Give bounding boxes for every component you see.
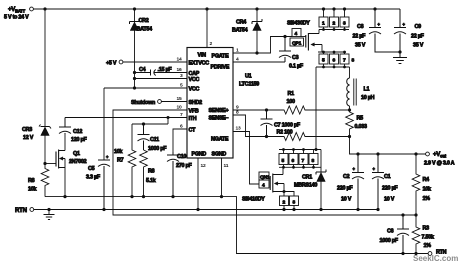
- terminal +Vout: [424, 151, 455, 167]
- node top rail junctions: [43, 7, 376, 10]
- svg-text:R1: R1: [288, 91, 295, 97]
- svg-text:8: 8: [352, 58, 355, 64]
- resistor R7 10k: [114, 124, 136, 197]
- svg-text:16: 16: [177, 67, 182, 73]
- capacitor C6 1000pF: [380, 215, 410, 254]
- svg-text:1000 pF: 1000 pF: [148, 146, 167, 152]
- wire power ground rail2: [34, 209, 378, 211]
- wire VFB pin10 to divider tap: [113, 110, 416, 215]
- wire shutdown to SHD2 pin15: [161, 101, 187, 103]
- transistor QP1 Si9430DY: [287, 9, 355, 68]
- svg-text:Si9430DY: Si9430DY: [287, 21, 310, 27]
- node rail2 junctions: [47, 208, 379, 211]
- svg-text:R2 100: R2 100: [277, 130, 293, 136]
- wire QP1 drain to L1: [349, 67, 351, 78]
- svg-text:3: 3: [293, 200, 296, 206]
- svg-text:CT: CT: [189, 128, 197, 134]
- terminal +VBATT: [4, 6, 33, 21]
- svg-text:5: 5: [282, 158, 285, 164]
- svg-text:7.50k: 7.50k: [422, 235, 434, 241]
- wire top supply rail: [33, 8, 400, 10]
- svg-text:C1: C1: [384, 174, 391, 180]
- svg-text:+VBATT: +VBATT: [8, 6, 26, 14]
- svg-text:SeekIC.com: SeekIC.com: [413, 254, 458, 262]
- svg-text:10: 10: [177, 105, 182, 111]
- svg-text:12 V: 12 V: [23, 135, 34, 141]
- wire R2 sense row pin8: [233, 115, 350, 141]
- svg-text:PDRIVE: PDRIVE: [211, 65, 230, 71]
- svg-text:C2: C2: [343, 174, 350, 180]
- node Vout rail junctions: [356, 152, 417, 155]
- svg-text:SENSE+: SENSE+: [209, 108, 229, 114]
- svg-text:1000 pF: 1000 pF: [380, 238, 399, 244]
- svg-text:R5: R5: [357, 116, 364, 122]
- svg-text:3: 3: [343, 21, 346, 27]
- svg-text:+: +: [353, 167, 356, 172]
- svg-text:C8: C8: [357, 24, 364, 30]
- capacitor C11 1000pF: [138, 124, 168, 152]
- svg-text:C5: C5: [88, 166, 95, 172]
- svg-text:BAT54: BAT54: [137, 27, 153, 33]
- svg-text:13: 13: [236, 126, 241, 132]
- inductor L1 10uH: [347, 78, 375, 106]
- svg-text:12: 12: [201, 163, 206, 169]
- resistor R8 10k: [28, 164, 49, 197]
- svg-text:C6: C6: [387, 229, 394, 235]
- resistor R5 0.033: [346, 106, 367, 137]
- wire signal ground bus rail1: [45, 197, 428, 254]
- node CR2 vertical junctions: [133, 71, 136, 90]
- svg-text:R7: R7: [117, 158, 124, 164]
- terminal +5V: [106, 60, 123, 66]
- svg-text:2: 2: [283, 200, 286, 206]
- op-amp U1 LTC1159 box: [187, 48, 259, 159]
- node C8/C9 ground junction: [398, 50, 401, 53]
- svg-text:R8: R8: [28, 178, 35, 184]
- wire R1 sense row pin9: [233, 106, 350, 114]
- capacitor C7 1000pF: [261, 110, 301, 137]
- svg-text:120 pF: 120 pF: [71, 137, 88, 143]
- svg-text:5: 5: [322, 58, 325, 64]
- svg-text:VCC: VCC: [189, 87, 200, 93]
- capacitor C12 120pF: [59, 118, 88, 144]
- svg-text:+: +: [373, 167, 376, 172]
- svg-text:MBRS140: MBRS140: [294, 183, 317, 189]
- wire ITH row pin7: [65, 117, 187, 119]
- wire +5V to EXTVCC pin14: [123, 61, 187, 63]
- svg-text:U1: U1: [245, 74, 252, 80]
- node ITH tee: [167, 116, 170, 119]
- resistor R4 10k 1%: [412, 154, 431, 215]
- pin numbers U1: [177, 41, 241, 169]
- node CR4/PGATE junction: [255, 51, 258, 54]
- svg-text:8: 8: [312, 158, 315, 164]
- svg-text:+: +: [403, 22, 406, 27]
- wire VCC pin3 row: [135, 78, 188, 80]
- svg-text:PGATE: PGATE: [212, 54, 230, 60]
- svg-text:EXTVCC: EXTVCC: [189, 61, 210, 67]
- svg-text:NGATE: NGATE: [211, 137, 229, 143]
- ground symbol at RTN: [44, 210, 55, 220]
- svg-text:0.033: 0.033: [355, 124, 367, 130]
- terminal RTN: [15, 207, 34, 214]
- node tap rail junctions: [401, 213, 417, 216]
- svg-text:220 µF: 220 µF: [382, 186, 398, 192]
- svg-text:Q1: Q1: [73, 151, 80, 157]
- svg-text:ITH: ITH: [189, 116, 197, 122]
- capacitor C10 270pF: [167, 152, 193, 197]
- svg-text:10 V: 10 V: [341, 197, 352, 203]
- capacitor C2 220uF 10V: [337, 154, 364, 210]
- capacitor C5 3.3uF: [86, 155, 110, 210]
- svg-text:VFB: VFB: [189, 109, 199, 115]
- svg-text:BAT54: BAT54: [232, 28, 248, 34]
- svg-text:RTN: RTN: [15, 207, 27, 214]
- wire CT row pin6: [173, 129, 187, 152]
- svg-text:5.1k: 5.1k: [146, 178, 156, 184]
- wire switch node vertical: [315, 67, 317, 150]
- svg-text:7: 7: [302, 158, 305, 164]
- diode CR1 MBRS140: [294, 150, 326, 210]
- node C11 top: [142, 122, 145, 125]
- svg-text:Shutdown: Shutdown: [131, 100, 155, 106]
- svg-text:35 V: 35 V: [355, 43, 366, 49]
- svg-text:6: 6: [333, 58, 336, 64]
- wire PGND pin12: [197, 158, 199, 210]
- wire PDRIVE pin4 to C3: [233, 61, 285, 63]
- svg-text:10 µH: 10 µH: [361, 95, 375, 101]
- ground symbol C8/C9: [393, 58, 407, 64]
- svg-text:22 µF: 22 µF: [411, 34, 425, 40]
- diode CR4 BAT54: [232, 9, 262, 53]
- node rail1 junctions: [63, 195, 417, 255]
- wire pin2 VIN to rail: [206, 9, 208, 48]
- svg-text:+Vout: +Vout: [433, 151, 447, 159]
- svg-text:220 µF: 220 µF: [337, 186, 353, 192]
- wire PGATE pin1 to QP1 gate: [233, 37, 292, 54]
- svg-text:2: 2: [333, 21, 336, 27]
- wire VCC pin5 row: [104, 87, 187, 89]
- capacitor C3 0.1uF: [279, 37, 304, 70]
- svg-text:1%: 1%: [424, 243, 432, 249]
- svg-text:R6: R6: [148, 169, 155, 175]
- svg-text:100: 100: [287, 99, 295, 105]
- wire SGND pin11: [221, 158, 223, 197]
- wire NGATE pin13 to QN1 gate: [233, 132, 259, 185]
- capacitor C1 220uF 10V: [372, 154, 398, 210]
- svg-text:CR3: CR3: [22, 127, 32, 133]
- svg-text:15: 15: [177, 96, 182, 102]
- terminal RTN output: [428, 250, 447, 256]
- svg-text:C9: C9: [415, 24, 422, 30]
- capacitor C8 22uF 35V: [353, 9, 401, 52]
- resistor R3 7.50k 1%: [412, 215, 434, 254]
- node C3 top junction: [283, 35, 286, 38]
- capacitor C4 0.15uF: [135, 67, 188, 76]
- svg-text:1%: 1%: [423, 196, 431, 202]
- svg-text:PGND: PGND: [192, 152, 207, 158]
- svg-text:C7 1000 pF: C7 1000 pF: [274, 123, 301, 129]
- node CR3/R8/Q1-gate junction: [43, 162, 46, 165]
- svg-text:CR4: CR4: [236, 20, 246, 26]
- svg-text:10k: 10k: [28, 187, 36, 193]
- svg-text:VCC: VCC: [189, 77, 200, 83]
- node R5/Vout junction: [348, 135, 351, 138]
- svg-text:1: 1: [322, 21, 325, 27]
- transistor QN1 Si9410DY: [242, 148, 321, 210]
- svg-text:LTC1159: LTC1159: [239, 82, 259, 88]
- svg-text:10 V: 10 V: [384, 197, 395, 203]
- svg-text:14: 14: [177, 57, 182, 63]
- svg-text:C10: C10: [177, 154, 186, 160]
- resistor R6 5.1k: [140, 150, 156, 197]
- svg-text:CAP: CAP: [189, 71, 200, 77]
- svg-text:2.9 V @ 3.0 A: 2.9 V @ 3.0 A: [424, 161, 455, 167]
- svg-text:.15 µF: .15 µF: [158, 67, 173, 73]
- svg-text:35 V: 35 V: [413, 43, 424, 49]
- svg-text:7: 7: [343, 58, 346, 64]
- svg-text:11: 11: [224, 163, 229, 169]
- svg-text:SENSE–: SENSE–: [209, 116, 229, 122]
- capacitor C9 22uF 35V: [394, 9, 425, 57]
- wire Q1 gate lead: [45, 163, 56, 165]
- svg-text:C3: C3: [292, 55, 299, 61]
- wire left vertical VBATT to CR3: [44, 9, 46, 127]
- svg-text:L1: L1: [364, 87, 370, 93]
- transistor Q1 2N7002: [56, 134, 87, 197]
- wire ITH drop to RC bar: [132, 118, 168, 125]
- diode CR2 BAT54: [130, 9, 153, 88]
- svg-text:SGND: SGND: [212, 152, 227, 158]
- svg-text:10k: 10k: [423, 187, 431, 193]
- terminal Shutdown: [131, 100, 161, 106]
- svg-text:C12: C12: [73, 129, 82, 135]
- svg-text:0.1 µF: 0.1 µF: [289, 64, 304, 70]
- svg-text:VIN: VIN: [198, 53, 207, 59]
- svg-text:CR2: CR2: [139, 18, 149, 24]
- node L1/R5 junction: [348, 108, 351, 111]
- svg-text:CR1: CR1: [302, 175, 312, 181]
- diode CR3 12V zener: [22, 125, 51, 164]
- svg-text:Si9410DY: Si9410DY: [242, 197, 265, 203]
- svg-text:R4: R4: [423, 177, 430, 183]
- svg-text:+: +: [106, 155, 109, 160]
- svg-text:+: +: [378, 22, 381, 27]
- svg-text:5 V to 24 V: 5 V to 24 V: [4, 15, 29, 21]
- svg-text:R3: R3: [423, 226, 430, 232]
- svg-text:C4: C4: [139, 67, 146, 73]
- wire C5 drop: [103, 88, 105, 160]
- svg-text:6: 6: [292, 158, 295, 164]
- svg-text:2N7002: 2N7002: [69, 159, 87, 165]
- svg-text:3.3 µF: 3.3 µF: [86, 175, 101, 181]
- svg-text:22 µF: 22 µF: [353, 34, 367, 40]
- svg-text:+5 V: +5 V: [106, 61, 117, 67]
- svg-text:10k: 10k: [114, 149, 122, 155]
- svg-text:270 pF: 270 pF: [176, 163, 193, 169]
- svg-text:QP1: QP1: [292, 41, 302, 47]
- svg-text:2: 2: [210, 41, 213, 47]
- svg-text:C11: C11: [150, 137, 159, 143]
- svg-text:SHD2: SHD2: [189, 100, 203, 106]
- wire Vout rail: [350, 137, 426, 155]
